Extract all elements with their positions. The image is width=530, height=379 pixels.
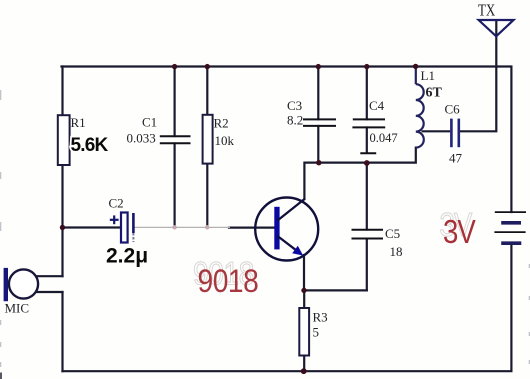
svg-text:9018: 9018: [198, 264, 259, 299]
svg-text:18: 18: [390, 244, 403, 259]
svg-text:C1: C1: [142, 115, 157, 130]
svg-text:R2: R2: [214, 116, 229, 131]
svg-text:6T: 6T: [426, 86, 443, 101]
svg-text:C5: C5: [385, 226, 400, 241]
svg-text:0.033: 0.033: [127, 131, 156, 146]
svg-text:C6: C6: [445, 102, 461, 117]
svg-text:MIC: MIC: [5, 301, 30, 316]
svg-text:0.047: 0.047: [370, 131, 398, 145]
svg-text:L1: L1: [421, 68, 435, 83]
svg-text:47: 47: [449, 151, 463, 166]
svg-text:8.2: 8.2: [287, 113, 303, 128]
svg-text:C2: C2: [109, 196, 124, 211]
svg-text:5: 5: [313, 325, 320, 340]
svg-text:5.6K: 5.6K: [71, 135, 109, 156]
svg-text:10k: 10k: [215, 133, 235, 148]
svg-text:TX: TX: [478, 2, 495, 20]
svg-text:C3: C3: [287, 98, 302, 113]
svg-text:R3: R3: [313, 310, 328, 325]
svg-text:2.2μ: 2.2μ: [106, 245, 148, 268]
svg-text:3V: 3V: [443, 212, 476, 250]
svg-text:C4: C4: [369, 98, 385, 113]
svg-text:R1: R1: [71, 115, 86, 130]
